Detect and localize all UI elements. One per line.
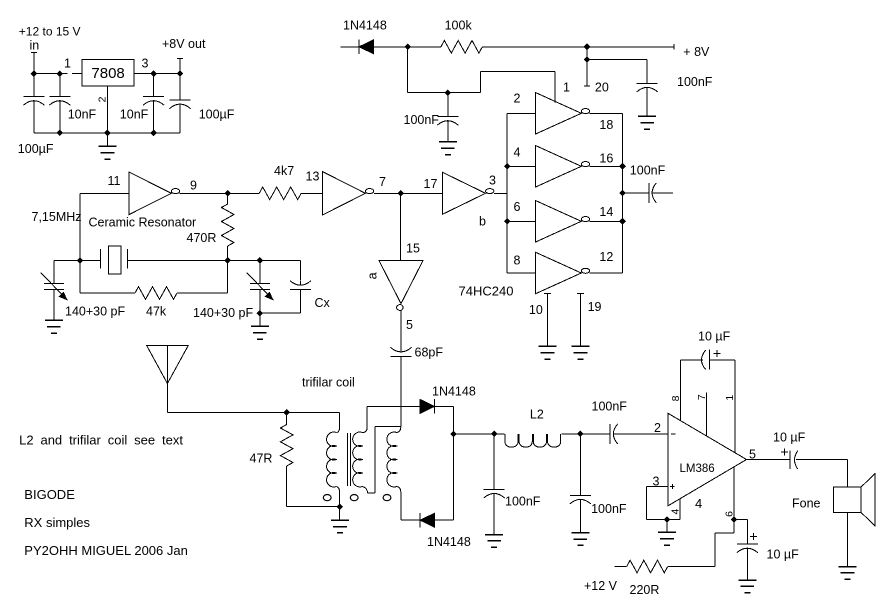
ground C6	[439, 142, 457, 155]
wire L2 to C10	[561, 433, 610, 435]
svg-text:19: 19	[588, 300, 602, 314]
label R3 470R	[187, 231, 217, 245]
junction C6 node	[445, 89, 452, 96]
wire C2 bottom lead	[59, 103, 61, 133]
svg-text:100nF: 100nF	[591, 502, 627, 516]
capacitor C7 100nF	[649, 183, 657, 203]
wire speaker gnd	[846, 513, 848, 567]
wire osc left vertical	[79, 193, 81, 260]
svg-text:10nF: 10nF	[120, 108, 149, 122]
secondary B bottom corner	[397, 487, 401, 521]
svg-text:74HC240: 74HC240	[459, 284, 514, 299]
wire bias horiz	[408, 92, 481, 94]
svg-text:RX simples: RX simples	[24, 515, 90, 530]
capacitor C3 10nF	[143, 97, 164, 106]
capacitor C13 10uF	[737, 544, 758, 553]
junction transformer gnd	[337, 504, 344, 511]
trimmer capacitor CV2	[247, 273, 274, 301]
svg-text:100nF: 100nF	[592, 399, 628, 413]
wire resonator right	[127, 260, 227, 262]
regulator U2 value	[91, 65, 124, 82]
pin 4 label rotated	[670, 509, 682, 515]
junction +8V rail	[584, 44, 591, 51]
wire D1 to junction	[374, 46, 441, 48]
wire C6 top lead	[447, 93, 449, 117]
label +8V out	[162, 37, 206, 51]
svg-text:1N4148: 1N4148	[343, 19, 387, 33]
svg-text:trifilar coil: trifilar coil	[302, 375, 355, 389]
svg-text:100µF: 100µF	[18, 142, 54, 156]
wire detector right vert	[453, 406, 455, 520]
label CV2 140+30 pF	[193, 306, 253, 320]
label Ceramic Resonator	[89, 216, 197, 230]
wire 47k right lead	[177, 292, 228, 294]
wire input pin 6	[507, 220, 535, 222]
svg-text:b: b	[479, 214, 486, 228]
pin 2 label LM386	[654, 421, 661, 435]
wire input bus	[506, 113, 508, 273]
wire gnd stem U3	[666, 520, 668, 533]
svg-text:L2: L2	[530, 407, 544, 421]
label D3 1N4148	[427, 535, 471, 549]
winding T1 secondary A	[353, 432, 363, 487]
svg-text:2: 2	[654, 421, 661, 435]
label D2 1N4148	[432, 384, 476, 398]
capacitor Cx	[290, 281, 311, 290]
wire output rail	[134, 73, 180, 75]
secondary B top corner	[397, 427, 401, 432]
pin 8 label	[514, 254, 521, 268]
wire C1 bottom lead	[33, 103, 35, 133]
junction node 7-17	[397, 190, 404, 197]
svg-text:17: 17	[424, 177, 438, 191]
pin 1 label	[64, 57, 71, 71]
svg-text:47R: 47R	[250, 452, 273, 466]
svg-text:BIGODE: BIGODE	[24, 487, 75, 502]
label a rotated	[366, 272, 380, 279]
ground pin 10	[539, 346, 557, 359]
pin 6 label	[514, 200, 521, 214]
svg-text:8: 8	[670, 395, 682, 401]
diode D1 1N4148	[359, 40, 374, 55]
svg-text:10 µF: 10 µF	[773, 431, 806, 445]
phase mark secondary B	[383, 495, 391, 501]
label Cx	[315, 296, 331, 310]
svg-text:4: 4	[695, 496, 702, 511]
wire D2 to output	[434, 405, 453, 407]
svg-text:1: 1	[724, 395, 736, 401]
diode D2 1N4148	[420, 399, 435, 414]
capacitor C5 100nF	[637, 83, 658, 92]
label C5 100nF	[677, 75, 713, 89]
wire bias horiz 2	[481, 71, 555, 73]
pin 9 label	[190, 179, 197, 193]
inverter U1g pins 17-3 b	[443, 172, 494, 214]
wire C4 top lead	[179, 74, 181, 100]
wire C9 bottom lead	[493, 496, 495, 535]
wire input pin 4	[507, 165, 535, 167]
svg-text:12: 12	[599, 250, 613, 264]
wire +8V out stub	[179, 59, 181, 74]
wire 4k7 to 13	[301, 192, 322, 194]
wire 47k left lead	[80, 292, 135, 294]
wire to output cap C7	[623, 192, 649, 194]
svg-text:100nF: 100nF	[505, 495, 541, 509]
wire pin 3 horiz	[646, 486, 668, 488]
wire C9 top lead	[493, 434, 495, 490]
ground speaker	[838, 567, 856, 580]
label trifilar coil	[302, 375, 355, 389]
inverter U1e pins 11-9	[129, 172, 180, 215]
wire node to CV2	[228, 260, 301, 262]
svg-text:7: 7	[696, 394, 708, 400]
wire output bus	[622, 113, 624, 273]
wire C13 top lead	[746, 520, 748, 545]
label C14 10uF	[773, 431, 806, 445]
capacitor C4 100uF	[170, 100, 191, 109]
ground U3	[658, 532, 676, 545]
svg-text:6: 6	[514, 200, 521, 214]
pin 20 label	[595, 80, 609, 94]
wire output pin 18	[590, 112, 623, 114]
junction input bus pin6	[504, 218, 511, 225]
wire pin6 down	[733, 520, 735, 534]
wire 15 drop	[400, 193, 402, 260]
wire input pin 2	[507, 112, 535, 114]
antenna	[147, 345, 189, 412]
label R6 220R	[630, 583, 660, 597]
pin 8 label rotated	[670, 395, 682, 401]
resistor R4 47k	[135, 287, 177, 300]
junction input bus pin4	[504, 163, 511, 170]
pin 5 label	[406, 318, 413, 332]
junction ground rail A	[57, 130, 64, 137]
label R4 47k	[146, 305, 167, 319]
primary top lead	[336, 413, 339, 433]
svg-text:100nF: 100nF	[630, 164, 666, 178]
label Fone	[792, 496, 821, 510]
wire C3 top lead	[153, 74, 155, 97]
capacitor C10 100nF	[570, 495, 591, 504]
wire feedback top right	[710, 359, 735, 361]
pin 5 label	[749, 448, 756, 462]
resistor R1 100k	[441, 41, 483, 54]
svg-text:47k: 47k	[146, 305, 167, 319]
label 7,15MHz	[32, 210, 82, 224]
wire pin 19 stub	[580, 293, 582, 346]
svg-text:3: 3	[653, 474, 660, 488]
label C10 100nF	[591, 502, 627, 516]
wire bias up	[480, 72, 482, 93]
ground PSU	[98, 146, 116, 159]
ground C13	[738, 580, 756, 593]
junction bias node	[404, 44, 411, 51]
junction output bus C	[619, 218, 626, 225]
pin 7 label	[379, 175, 386, 189]
U3 plus input mark	[670, 484, 675, 489]
label C8 68pF	[415, 345, 444, 359]
svg-text:1: 1	[563, 80, 570, 94]
junction CV2 top	[257, 257, 264, 264]
resistor R3 470R	[221, 204, 234, 246]
label R1 100k	[445, 19, 473, 33]
label CV1 140+30 pF	[65, 305, 125, 319]
wire pin 1	[734, 360, 736, 453]
title BIGODE	[24, 487, 75, 502]
svg-text:Fone: Fone	[792, 496, 821, 510]
wire C5 top lead	[646, 60, 648, 84]
wire RF output stub	[653, 192, 674, 194]
pin 15 label	[406, 241, 420, 255]
inductor L2	[505, 434, 561, 447]
svg-text:L2 and trifilar coil see text: L2 and trifilar coil see text	[19, 433, 183, 448]
svg-text:3: 3	[489, 174, 496, 188]
svg-text:13: 13	[306, 169, 320, 183]
wire pin 3 vert	[645, 487, 647, 520]
label C6 100nF	[404, 113, 440, 127]
label R5 47R	[250, 452, 273, 466]
svg-text:11: 11	[108, 174, 121, 188]
junction antenna 47R	[283, 409, 290, 416]
svg-text:8: 8	[514, 254, 521, 268]
wire 9 to 4k7	[180, 192, 260, 194]
svg-text:16: 16	[599, 151, 613, 165]
phase mark secondary A	[350, 495, 358, 501]
pin 4 label plain	[695, 496, 702, 511]
wire output pin 16	[590, 165, 623, 167]
junction output bus A	[619, 163, 626, 170]
wire C3 bottom lead	[153, 103, 155, 133]
wire 47R top lead	[286, 413, 288, 425]
ground C9	[485, 535, 503, 548]
wire +8V rail	[482, 46, 674, 48]
op-amp U3 LM386	[668, 413, 747, 506]
wire 470R bottom lead	[227, 246, 229, 261]
ground CV1	[45, 320, 63, 333]
wire C13 bottom lead	[746, 551, 748, 581]
junction output rail A	[150, 70, 157, 77]
C13 plus mark	[750, 533, 757, 540]
credit PY2OHH MIGUEL 2006 Jan	[24, 543, 188, 558]
wire secondary B to D3	[401, 519, 420, 521]
C12 plus mark	[713, 350, 720, 357]
wire 47R to gnd node	[287, 506, 340, 508]
capacitor C11 100nF	[610, 424, 618, 444]
svg-text:3: 3	[142, 57, 149, 71]
junction pin6	[731, 516, 738, 523]
wire ground rail	[34, 132, 180, 134]
pin 14 label	[599, 205, 613, 219]
wire pin3 to pin4	[646, 519, 680, 521]
svg-text:5: 5	[406, 318, 413, 332]
buffer U1c 74HC240	[536, 201, 590, 243]
svg-text:Ceramic Resonator: Ceramic Resonator	[89, 216, 197, 230]
svg-text:7: 7	[379, 175, 386, 189]
capacitor C9 100nF	[484, 489, 505, 498]
svg-text:2: 2	[514, 92, 521, 106]
label + 8V	[683, 45, 710, 59]
svg-text:1: 1	[64, 57, 71, 71]
wire detector to filter	[454, 433, 505, 435]
svg-text:10nF: 10nF	[68, 108, 97, 122]
wire C10 top lead	[579, 434, 581, 495]
wire 47k right vert	[227, 261, 229, 294]
junction resonator left	[77, 257, 84, 264]
pin 1 label rotated	[724, 395, 736, 401]
pin 19 label	[588, 300, 602, 314]
pin 13 label	[306, 169, 320, 183]
wire CV2 ground stem	[259, 313, 261, 326]
capacitor C1 100uF	[23, 97, 44, 106]
wire pin 1 drop	[554, 72, 556, 103]
label C2 10nF	[68, 108, 97, 122]
wire 3 to bus	[494, 192, 507, 194]
ceramic resonator X1	[100, 246, 127, 274]
wire +12V input stub	[33, 53, 35, 74]
junction input rail B	[57, 70, 64, 77]
svg-text:4: 4	[670, 509, 682, 515]
+8V rail end tick	[673, 44, 675, 50]
svg-text:9: 9	[190, 179, 197, 193]
capacitor C12 10uF	[702, 350, 710, 370]
svg-text:100k: 100k	[445, 19, 473, 33]
wire to C5	[587, 59, 647, 61]
svg-text:a: a	[366, 272, 380, 279]
svg-text:Cx: Cx	[315, 296, 331, 310]
secondary A top lead	[362, 406, 367, 432]
diode D3 1N4148	[420, 513, 435, 528]
wire pin 10 stub	[547, 293, 549, 346]
svg-text:100nF: 100nF	[677, 75, 713, 89]
svg-text:15: 15	[406, 241, 420, 255]
wire pin1 dash	[72, 73, 82, 75]
wire output pin 14	[590, 220, 623, 222]
label C11 100nF	[592, 399, 628, 413]
label b	[479, 214, 486, 228]
wire supply vert	[714, 533, 716, 566]
wire Cx to CV2	[260, 312, 301, 314]
svg-text:220R: 220R	[630, 583, 660, 597]
svg-text:5: 5	[749, 448, 756, 462]
wire node X vert	[374, 427, 376, 494]
svg-text:68pF: 68pF	[415, 345, 444, 359]
svg-text:7808: 7808	[91, 65, 124, 82]
label +12 to 15 V	[19, 24, 81, 38]
svg-text:470R: 470R	[187, 231, 217, 245]
wire D3 to output	[435, 519, 454, 521]
capacitor C6 100nF	[437, 117, 458, 126]
svg-text:1N4148: 1N4148	[427, 535, 471, 549]
wire C1 top lead	[33, 74, 35, 97]
junction resonator right	[224, 257, 231, 264]
svg-text:10 µF: 10 µF	[767, 547, 800, 561]
wire CV2 top lead	[259, 261, 261, 284]
svg-text:20: 20	[595, 80, 609, 94]
label C4 100µF	[199, 108, 235, 122]
secondary A bottom corner	[362, 487, 375, 494]
junction pin4 gnd	[664, 516, 671, 523]
pin 3 label	[142, 57, 149, 71]
wire pin6 to C13	[734, 519, 747, 521]
svg-text:+12 V: +12 V	[584, 579, 618, 593]
svg-text:10: 10	[529, 303, 543, 317]
wire C11 to LM386	[614, 433, 668, 435]
wire output pin 12	[590, 272, 623, 274]
ground C5	[638, 116, 656, 129]
title RX simples	[24, 515, 90, 530]
pin 17 label	[424, 177, 438, 191]
resistor R5 47R	[280, 425, 293, 467]
wire pin6 left	[715, 532, 734, 534]
wire pin 20 stub	[586, 60, 588, 87]
svg-text:100µF: 100µF	[199, 108, 235, 122]
label C9 100nF	[505, 495, 541, 509]
pin 11 label	[108, 174, 121, 188]
junction C9 node	[491, 431, 498, 438]
winding T1 primary	[327, 432, 337, 487]
wire 7808 pin2	[106, 86, 108, 133]
wire CV2 bottom lead	[259, 290, 261, 314]
wire input pin 8	[507, 272, 535, 274]
pin 2 label	[514, 92, 521, 106]
label C12 10uF	[698, 329, 731, 343]
svg-text:14: 14	[599, 205, 613, 219]
svg-text:140+30 pF: 140+30 pF	[193, 306, 253, 320]
resistor R2 4k7	[259, 187, 301, 200]
wire C6 bottom lead	[447, 123, 449, 142]
label C7 100nF	[630, 164, 666, 178]
wire osc input	[80, 192, 129, 194]
svg-text:in: in	[30, 39, 40, 53]
wire resonator left	[54, 260, 101, 262]
buffer U1d 74HC240	[536, 252, 590, 294]
svg-text:4k7: 4k7	[274, 164, 294, 178]
wire trimmer CV1 top lead	[53, 261, 55, 284]
pin 3 label	[489, 174, 496, 188]
junction osc out	[224, 190, 231, 197]
pin 1 label 74HC240	[563, 80, 570, 94]
label in	[30, 39, 40, 53]
wire pin 8	[679, 360, 681, 421]
wire 47R bottom lead	[286, 466, 288, 507]
svg-text:2: 2	[96, 96, 108, 102]
wire diode D1 left lead	[341, 46, 360, 48]
primary bottom lead	[336, 487, 339, 507]
pin 10 stub tick	[544, 292, 551, 294]
wire CV1 bottom lead	[53, 290, 55, 321]
wire input rail	[34, 73, 68, 75]
svg-text:+ 8V: + 8V	[683, 45, 710, 59]
pin 16 label	[599, 151, 613, 165]
resistor R6 220R	[627, 560, 668, 573]
svg-text:7,15MHz: 7,15MHz	[32, 210, 82, 224]
pin 3 label	[653, 474, 660, 488]
svg-text:+8V out: +8V out	[162, 37, 206, 51]
svg-text:PY2OHH MIGUEL 2006 Jan: PY2OHH MIGUEL 2006 Jan	[24, 543, 188, 558]
wire C2 top lead	[59, 74, 61, 97]
wire C4 bottom lead	[179, 106, 181, 132]
wire 5 to 68pF	[400, 311, 402, 348]
ground pin 19	[572, 346, 590, 359]
regulator U2 7808 box	[82, 60, 134, 86]
label R2 4k7	[274, 164, 294, 178]
svg-text:10 µF: 10 µF	[698, 329, 731, 343]
phase mark primary	[323, 495, 331, 501]
label +12 V	[584, 579, 618, 593]
wire gnd stem T1	[339, 507, 341, 521]
svg-text:1N4148: 1N4148	[432, 384, 476, 398]
wire feedback top left	[680, 359, 703, 361]
